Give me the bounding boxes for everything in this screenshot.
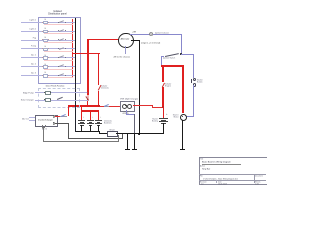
fuse on positive feed riser — [87, 95, 88, 99]
wire starter button feed vertical — [192, 54, 195, 78]
battery domestic 1 plate 2 short — [80, 121, 84, 124]
wire domestic battery 3 positive drop — [98, 111, 99, 121]
title block divider document column — [253, 174, 255, 183]
wire domestic battery 2 negative drop — [90, 125, 91, 132]
label ignition switch — [157, 57, 181, 59]
label direct feeds fusebox — [40, 85, 70, 87]
wire ignition switch to starter button feed — [181, 53, 194, 56]
label breaker 6 — [16, 63, 36, 65]
label domestic batteries — [104, 120, 112, 124]
ignition indicator lamp — [149, 32, 153, 36]
title block outer box — [199, 157, 268, 185]
switch SW2 terminal b — [64, 29, 67, 32]
battery domestic 3 plate 1 long — [95, 119, 102, 122]
node solar charger at red bar — [87, 99, 88, 100]
battery starter plate 1 long — [159, 117, 168, 120]
title block revision value — [201, 183, 203, 185]
label breaker 5 — [16, 54, 36, 56]
wire panel negative trunk (black) — [75, 81, 76, 132]
wire alternator earth horizontal (black) — [131, 40, 139, 41]
fuse F2 value — [44, 28, 46, 30]
panel positive busbar (red) — [71, 19, 74, 78]
fuse F4 — [43, 48, 48, 52]
fuse solar charger — [45, 98, 51, 102]
wire panel red bus to domestic isolator (thick red) — [72, 53, 100, 55]
label alternator -VE note — [113, 56, 130, 58]
fuse F6 — [43, 65, 48, 69]
wire breaker 5 output (red) — [44, 59, 73, 61]
switch SW3 blade — [59, 38, 64, 40]
wire ignition switch stub left — [161, 55, 164, 58]
switch blade on positive feed riser — [86, 96, 89, 100]
switch SW4 terminal b — [64, 47, 67, 50]
label domestic battery 3 plus — [100, 116, 101, 118]
wire +VE to ignition indicator — [130, 33, 181, 36]
wire breaker 3 output (red) — [44, 41, 73, 43]
title block date value — [218, 183, 227, 185]
node domestic bus junction — [98, 105, 100, 107]
label alternator — [118, 38, 132, 40]
pushbutton starter terminal b — [193, 83, 197, 87]
wire bilge pump — [35, 91, 88, 93]
title block label document — [255, 175, 263, 177]
relay VSR terminal 2 — [127, 104, 132, 109]
label breaker 3 — [16, 37, 36, 39]
switch SW1 terminal a — [57, 21, 60, 24]
wire breaker 2 input — [21, 30, 75, 32]
switch SW7 terminal b — [64, 74, 67, 77]
switch SW5 blade — [59, 56, 64, 58]
battery domestic 2 plate 2 short — [89, 121, 93, 124]
switch SW6 terminal b — [64, 65, 67, 68]
wire starter battery positive stub (red) — [163, 108, 164, 119]
wire AC in stub 2 — [44, 125, 47, 128]
battery domestic 2 plate 4 short — [89, 124, 93, 127]
wire inverter feed riser (red) — [68, 106, 69, 116]
battery domestic 1 plate 3 long — [78, 122, 85, 125]
fuse VSR feed blade — [104, 103, 109, 106]
wire domestic battery 1 negative drop — [81, 125, 82, 132]
label isolator engine — [165, 83, 171, 87]
wire domestic battery 1 positive drop — [81, 111, 82, 121]
fuse inverter feed blade — [61, 114, 66, 117]
wire starter button to motor horizontal — [186, 115, 194, 118]
label breaker 1 — [16, 19, 36, 21]
wire alternator earth trunk vertical (black) — [139, 40, 140, 135]
wire engine feed right leg (thick red) — [182, 65, 184, 113]
fuse F1 pin 2 — [47, 21, 50, 24]
fuse F6 value — [44, 64, 46, 66]
label starter motor — [166, 114, 179, 118]
switch isolator engine blade — [162, 82, 165, 87]
wire VSR output to starter (red) — [133, 104, 153, 107]
wire engine feed left leg lower (thick red) — [162, 87, 164, 108]
fuse F3 pin 1 — [41, 38, 44, 41]
switch SW1 terminal b — [64, 21, 67, 24]
switch SW5 terminal b — [64, 56, 67, 59]
fuse F7 pin 2 — [47, 74, 50, 77]
switch solar charger blade — [57, 97, 63, 100]
wire engine feed left leg upper (thick red) — [162, 65, 164, 82]
wire starter button to motor vertical — [192, 85, 195, 116]
wire bus to VSR fuse left — [100, 105, 104, 108]
title block label date — [218, 181, 222, 183]
fuse F2 — [43, 30, 48, 34]
inverter charger box — [35, 115, 58, 127]
alternator circle U1 — [118, 33, 134, 49]
node ignition switch junction — [180, 53, 182, 55]
label inverter charger — [35, 119, 56, 121]
wire breaker 5 input — [21, 56, 75, 58]
pushbutton starter actuator — [190, 79, 193, 84]
wire domestic main bus (thick red) — [68, 105, 100, 107]
battery domestic 1 plate 4 short — [80, 124, 84, 127]
wire AC in hook up (gray) — [118, 135, 119, 142]
title block label author — [200, 165, 205, 167]
wire VSR sense horizontal — [126, 113, 135, 116]
wire positive feed riser lower — [87, 100, 88, 107]
label breaker 7 — [16, 72, 36, 74]
panel negative busbar (black) — [75, 18, 77, 82]
connector inverter DC minus — [53, 122, 56, 125]
wire alternator positive feed vertical (thick red) — [87, 39, 89, 96]
wire breaker 1 input — [21, 21, 75, 23]
wire engine feed top (thick red) — [161, 65, 184, 67]
ground earth cap 1 — [125, 149, 130, 150]
switch SW4 terminal a — [57, 47, 60, 50]
wire breaker 2 output (red) — [44, 32, 73, 34]
fuse F5 value — [44, 55, 46, 57]
fuse F6 pin 1 — [41, 65, 44, 68]
label breaker 2 — [16, 28, 36, 30]
switch SW2 blade — [59, 29, 64, 31]
switch SW7 terminal a — [57, 74, 60, 77]
wire inverter negative hook up (gray) — [122, 134, 123, 139]
wire inverter negative horizontal (gray) — [55, 123, 69, 124]
wire fuse to VSR — [109, 105, 121, 108]
wire AC in bridge — [42, 126, 45, 129]
ground starter motor earth cap — [180, 149, 185, 150]
label starter battery plus — [166, 113, 167, 115]
wire inverter negative run (gray) — [68, 138, 123, 139]
fuse bilge pump pin 1 — [43, 91, 46, 94]
label bilge pump — [14, 92, 34, 94]
fuse solar charger pin 2 — [49, 98, 52, 101]
fuse F2 pin 1 — [41, 30, 44, 33]
label AC in — [42, 128, 47, 130]
label VSR sense note — [118, 111, 133, 115]
fuse F1 pin 1 — [41, 21, 44, 24]
label +VE — [132, 31, 136, 33]
relay VSR terminal 1 — [122, 104, 127, 109]
label starter battery — [145, 118, 158, 122]
wire battery bank positive bus (thick red) — [81, 110, 100, 112]
wire breaker 7 output (red) — [44, 76, 73, 78]
title block title value — [202, 161, 231, 163]
label breaker 4 — [16, 45, 36, 47]
wire VSR output jog — [151, 105, 154, 108]
battery domestic 3 plate 3 long — [95, 122, 102, 125]
label domestic battery 1 plus — [83, 116, 84, 118]
wire ignition switch drop to engine feed — [160, 56, 163, 66]
wire breaker 1 output (red) — [44, 23, 73, 25]
title block label revision — [200, 181, 207, 183]
title block label title — [200, 158, 203, 160]
battery domestic 1 plate 1 long — [78, 119, 85, 122]
switch ignition blade — [165, 53, 179, 56]
title block label file — [200, 175, 203, 177]
wire earth stub 1 drop — [127, 134, 128, 149]
wire AC in stub 1 — [41, 125, 44, 128]
title block label sheets — [255, 181, 260, 183]
wire inverter positive link (red) — [55, 115, 60, 118]
wire starter motor earth stub — [182, 120, 183, 149]
wire alternator positive feed horizontal (thick red) — [87, 39, 119, 41]
fuse F5 pin 2 — [47, 56, 50, 59]
fuse F3 — [43, 39, 48, 43]
fuse F1 value — [44, 19, 46, 21]
switch SW4 blade — [59, 47, 64, 49]
fuse F3 value — [44, 37, 46, 39]
ground earth cap 2 — [132, 149, 137, 150]
label isolator domestic — [101, 85, 109, 89]
wire AC out stub 1 — [29, 116, 35, 118]
wire negative bus to shunt — [99, 133, 108, 134]
distribution panel box — [38, 17, 81, 84]
node VSR input junction — [121, 105, 122, 106]
switch SW1 blade — [59, 20, 64, 22]
switch SW5 terminal a — [57, 56, 60, 59]
dashed box direct feeds — [38, 88, 80, 107]
label shunt — [106, 129, 118, 131]
wire negative bus jog — [99, 131, 100, 134]
wire domestic negative bus (black) — [75, 131, 100, 132]
fuse F4 pin 1 — [41, 47, 44, 50]
wire starter battery negative stub — [163, 123, 164, 134]
title block file underline — [202, 179, 251, 181]
title block title underline — [202, 163, 242, 165]
starter motor M1 — [180, 114, 188, 122]
label starter button — [197, 79, 203, 83]
wire breaker 6 output (red) — [44, 68, 73, 70]
fuse F5 — [43, 56, 48, 60]
shunt box — [107, 131, 118, 137]
wire solar charger — [35, 99, 88, 101]
wire AC in drop (gray) — [43, 127, 44, 141]
battery domestic 2 plate 1 long — [87, 119, 94, 122]
wire domestic isolator riser upper (thick red) — [98, 53, 99, 86]
wire earth stub 2 drop — [134, 134, 135, 149]
battery domestic 3 plate 4 short — [97, 124, 101, 127]
label engine -ve terminal — [141, 42, 160, 44]
wire breaker 3 input — [21, 39, 75, 41]
switch isolator domestic blade — [97, 85, 100, 90]
fuse F7 pin 1 — [41, 74, 44, 77]
title block divider date column — [215, 180, 217, 183]
node starter battery junction — [162, 106, 164, 108]
connector inverter DC plus — [53, 115, 56, 118]
wire domestic battery 3 negative drop — [98, 125, 99, 132]
wire domestic battery 2 positive drop — [90, 111, 91, 121]
fuse F4 pin 2 — [47, 47, 50, 50]
wire shunt to starter battery earth bus — [116, 133, 163, 134]
wire VSR output to starter junction — [152, 106, 164, 109]
title block divider revision row — [199, 179, 266, 181]
title block divider file row — [199, 173, 266, 175]
wire alternator -VE sense stub — [124, 46, 127, 54]
wire AC out stub 2 — [29, 119, 35, 121]
battery starter plate 2 short — [161, 119, 166, 122]
switch SW6 blade — [59, 65, 64, 67]
relay VSR box — [120, 101, 135, 112]
title block file value — [203, 178, 238, 180]
switch SW7 blade — [59, 73, 64, 75]
fuse F6 pin 2 — [47, 65, 50, 68]
label VSR — [120, 98, 138, 100]
label domestic battery 2 plus — [92, 116, 93, 118]
wire breaker 4 output (red) — [44, 50, 73, 52]
fuse F7 value — [44, 72, 46, 74]
fuse inverter feed symbol — [60, 115, 66, 118]
fuse solar charger pin 1 — [43, 98, 46, 101]
fuse VSR feed symbol — [104, 105, 110, 108]
wire VSR sense stub down — [125, 110, 128, 114]
switch SW6 terminal a — [57, 65, 60, 68]
title block author value — [202, 168, 210, 170]
title block sheets value — [255, 183, 259, 185]
label solar charger — [14, 99, 34, 101]
wire breaker 4 input — [21, 47, 75, 49]
fuse bilge pump — [45, 91, 51, 95]
label AC out — [20, 118, 29, 120]
relay VSR link bar — [125, 104, 127, 107]
battery starter plate 3 long — [159, 120, 168, 123]
switch SW3 terminal a — [57, 38, 60, 41]
battery domestic 3 plate 2 short — [97, 121, 101, 124]
fuse F2 pin 2 — [47, 30, 50, 33]
wire breaker 7 input — [21, 74, 75, 76]
fuse F5 pin 1 — [41, 56, 44, 59]
pushbutton starter terminal a — [193, 78, 197, 82]
wire battery bank feed riser (red) — [81, 106, 82, 110]
node alternator earth joins bus — [138, 133, 140, 135]
starter motor center dot — [182, 116, 183, 117]
wire indicator drop vertical — [180, 34, 183, 54]
switch SW3 terminal b — [64, 38, 67, 41]
switch SW2 terminal a — [57, 29, 60, 32]
wire VSR sense drop to earth bus — [133, 114, 136, 134]
label ignition indicator — [155, 32, 169, 34]
wire inverter negative riser (gray) — [68, 123, 69, 139]
fuse F7 — [43, 74, 48, 78]
wire AC in run (gray) — [43, 141, 119, 142]
wire domestic isolator riser lower (thick red) — [98, 91, 99, 107]
distribution panel title — [36, 10, 79, 15]
fuse F4 value — [44, 46, 46, 48]
fuse F1 — [43, 21, 48, 25]
fuse F3 pin 2 — [47, 38, 50, 41]
wire breaker 6 input — [21, 65, 75, 67]
fuse bilge pump pin 2 — [49, 91, 52, 94]
node bilge pump at red bar — [87, 92, 88, 93]
battery starter plate 4 short — [161, 122, 166, 125]
switch ignition terminal a — [163, 56, 164, 57]
battery domestic 2 plate 3 long — [87, 122, 94, 125]
